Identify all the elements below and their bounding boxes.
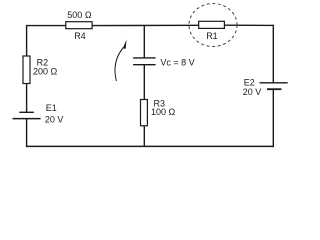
- wire top-right segment: [225, 24, 274, 26]
- svg-text:200 Ω: 200 Ω: [33, 66, 58, 76]
- dashed circle around R1: [189, 4, 237, 47]
- wire middle lower: [143, 126, 145, 146]
- wire top-left segment: [27, 25, 66, 27]
- capacitor C (Vc): [133, 58, 156, 65]
- wire middle upper: [143, 26, 145, 58]
- battery E1: [13, 112, 41, 118]
- resistor R2: [23, 56, 30, 84]
- wire right upper: [272, 25, 274, 83]
- wire middle between cap and R3: [143, 65, 145, 100]
- wire left middle: [26, 84, 28, 113]
- resistor R1: [199, 21, 225, 28]
- svg-text:E1: E1: [46, 103, 57, 113]
- svg-text:R1: R1: [206, 31, 218, 41]
- wire left upper: [26, 25, 28, 56]
- wire bottom: [26, 145, 274, 147]
- arrow (voltage reference): [115, 40, 127, 81]
- svg-text:20 V: 20 V: [45, 114, 64, 124]
- svg-text:20 V: 20 V: [243, 87, 262, 97]
- wire left lower: [26, 119, 28, 148]
- resistor R4: [66, 22, 92, 29]
- svg-text:100 Ω: 100 Ω: [151, 107, 176, 117]
- svg-text:Vc = 8 V: Vc = 8 V: [160, 58, 194, 68]
- svg-text:R4: R4: [74, 31, 86, 41]
- resistor R3: [141, 100, 148, 126]
- svg-text:500 Ω: 500 Ω: [67, 10, 92, 20]
- wire top-middle segment: [92, 24, 198, 26]
- wire right lower: [272, 89, 274, 147]
- battery E2: [260, 83, 288, 89]
